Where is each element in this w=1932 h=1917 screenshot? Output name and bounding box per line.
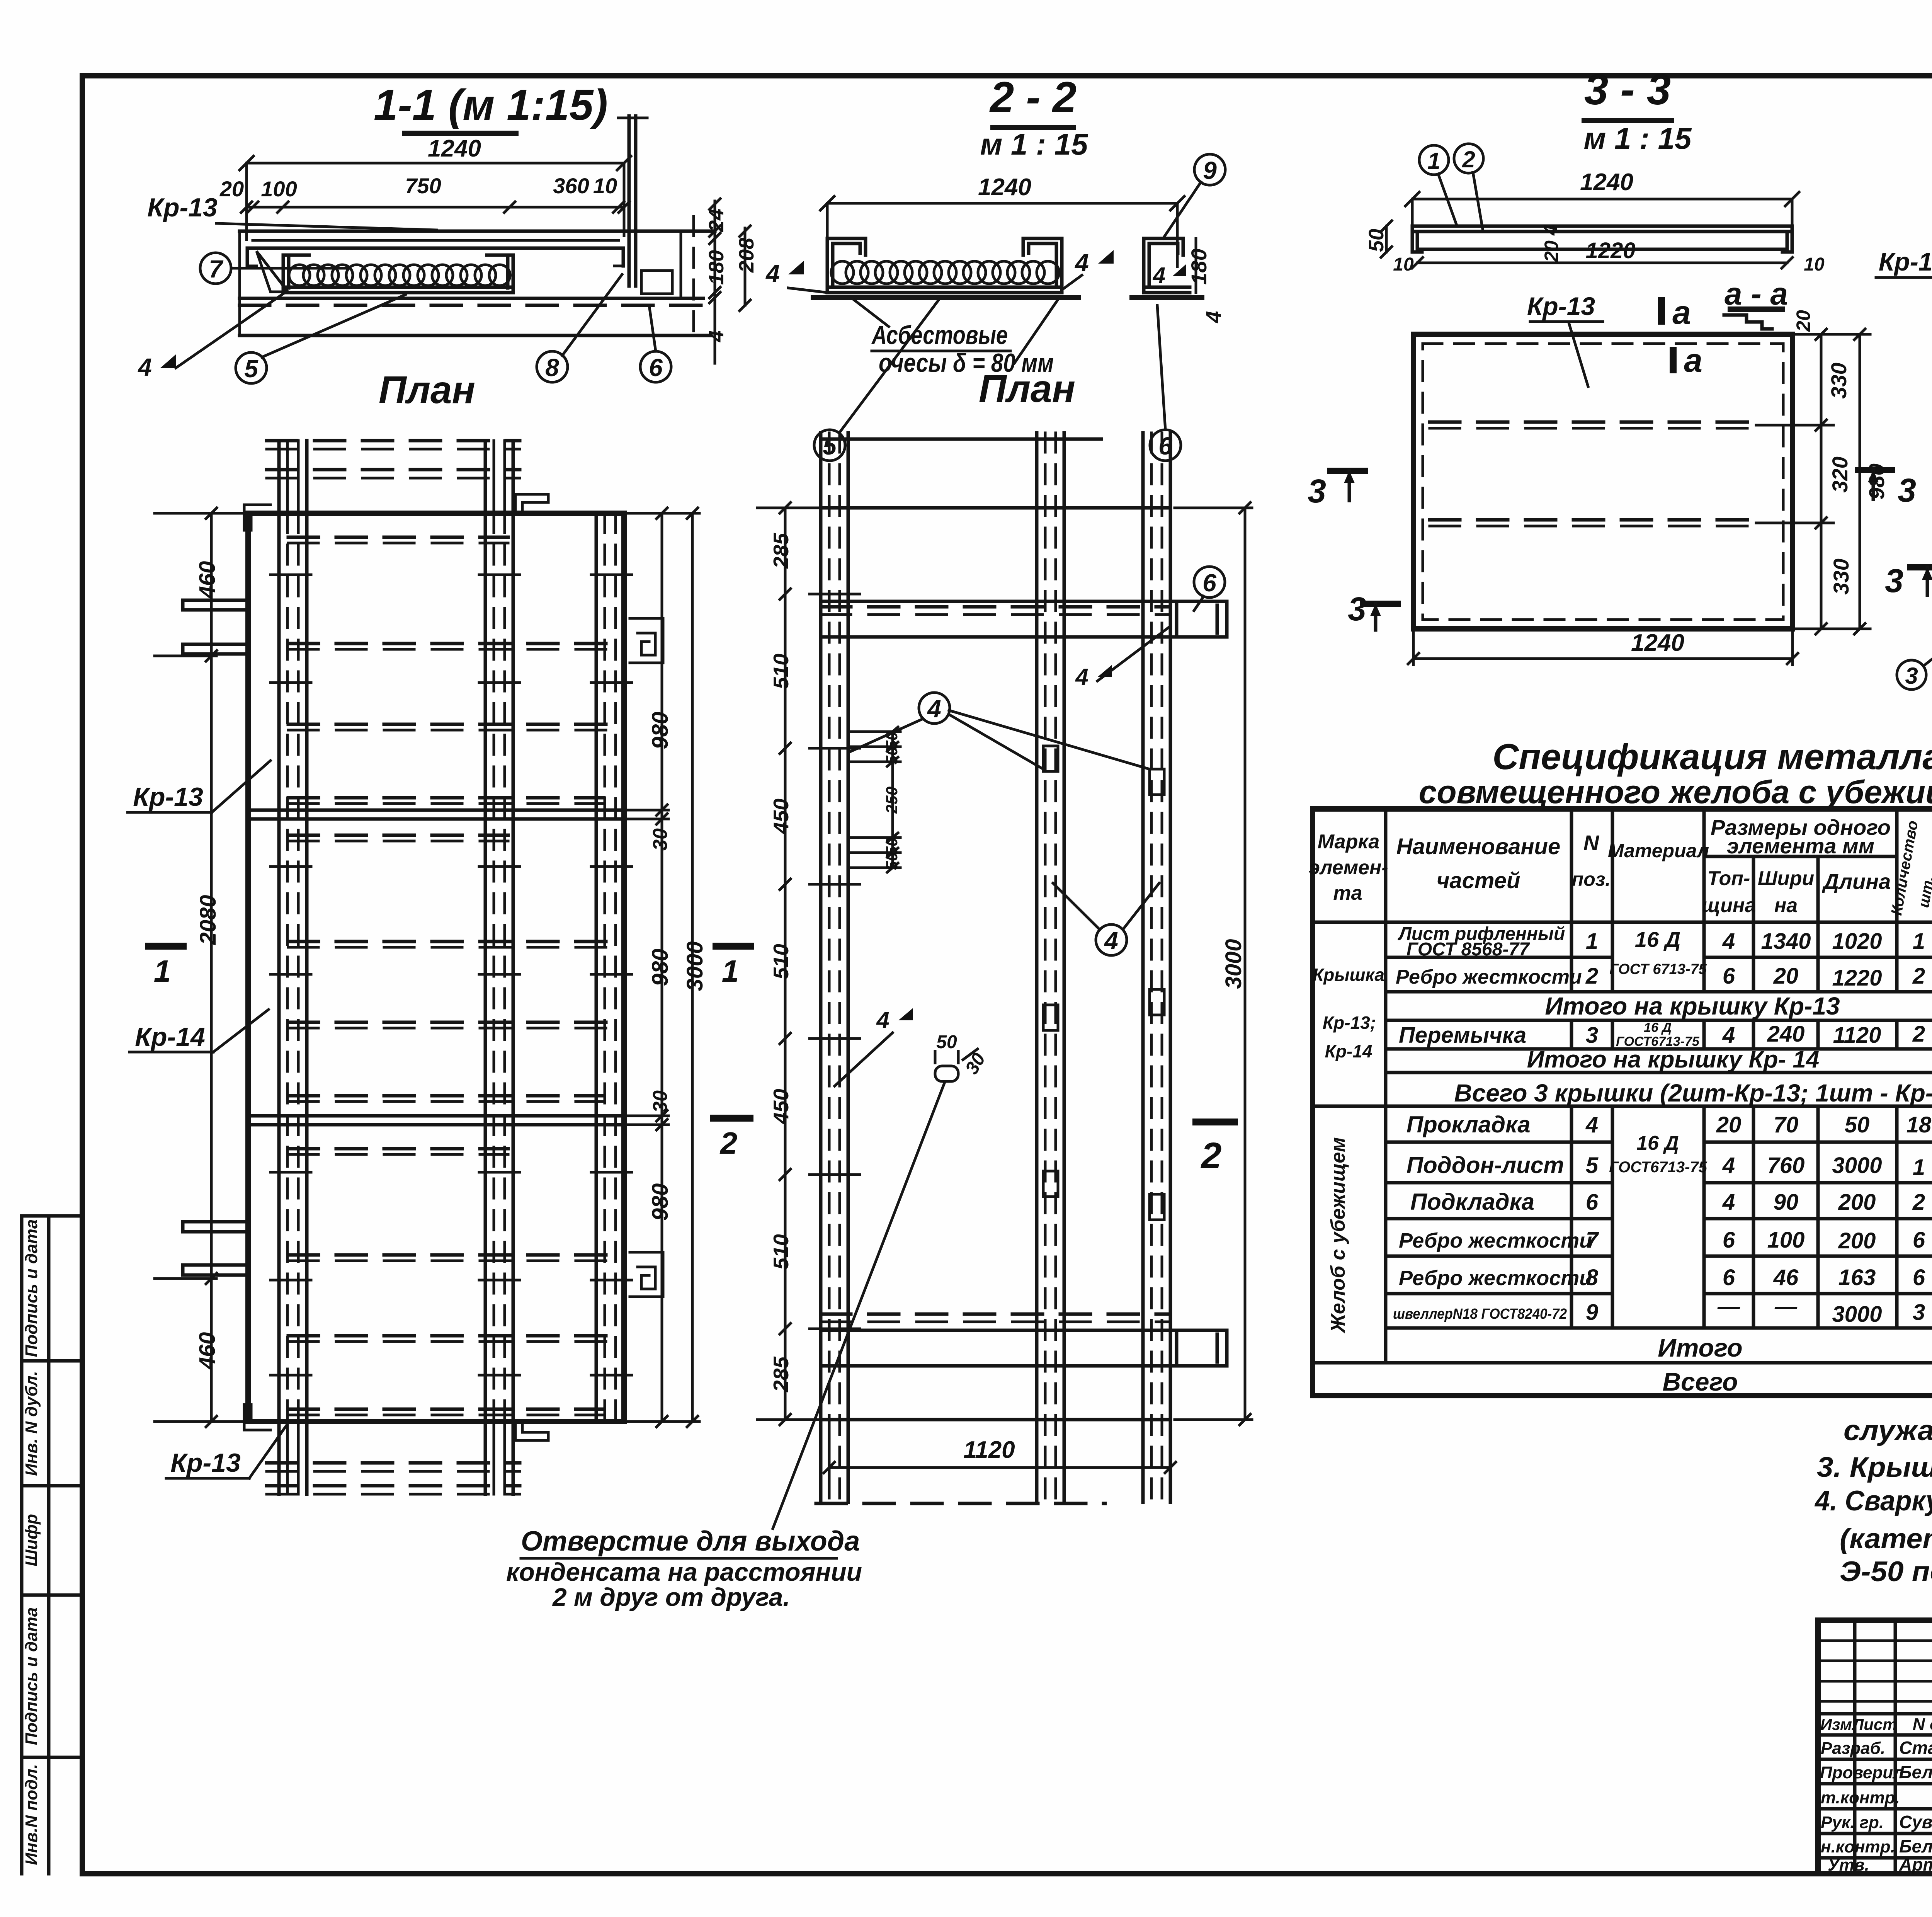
svg-text:6: 6 <box>1913 1227 1925 1253</box>
svg-text:План: План <box>379 368 475 412</box>
svg-text:2: 2 <box>1912 1190 1925 1215</box>
svg-text:4: 4 <box>1104 927 1118 955</box>
svg-text:163: 163 <box>1838 1265 1876 1290</box>
svg-text:20: 20 <box>1773 964 1799 989</box>
svg-text:4: 4 <box>1722 1153 1735 1178</box>
svg-text:330: 330 <box>1829 558 1853 594</box>
svg-text:Шифр: Шифр <box>22 1514 41 1566</box>
svg-text:240: 240 <box>1767 1021 1805 1047</box>
svg-text:2: 2 <box>1912 964 1925 989</box>
right dim 3000 (plan B) <box>1244 508 1247 1420</box>
svg-text:3000: 3000 <box>1221 939 1246 989</box>
svg-text:Кр-13: Кр-13 <box>170 1448 241 1478</box>
svg-text:208: 208 <box>735 238 758 273</box>
svg-text:Белова: Белова <box>1899 1836 1932 1856</box>
dim chain 50/50/250/50/50 <box>891 732 894 868</box>
svg-text:50: 50 <box>1845 1112 1870 1137</box>
section mark 1 right <box>713 943 754 950</box>
svg-text:8: 8 <box>1586 1265 1599 1290</box>
svg-text:Кр-13: Кр-13 <box>1527 292 1595 320</box>
svg-text:Перемычка: Перемычка <box>1399 1023 1526 1048</box>
svg-text:Кр-14: Кр-14 <box>1879 247 1932 276</box>
svg-text:20: 20 <box>1541 240 1562 262</box>
svg-text:50: 50 <box>936 1032 957 1052</box>
svg-text:4: 4 <box>1722 929 1735 954</box>
svg-text:Всего: Всего <box>1663 1367 1738 1396</box>
dim 1240 (2-2) <box>827 202 1177 205</box>
trough channel walls <box>283 255 513 293</box>
circled 3 lower-left <box>1897 660 1926 690</box>
svg-text:9: 9 <box>1586 1300 1598 1325</box>
svg-text:7: 7 <box>209 255 224 283</box>
svg-text:10: 10 <box>1393 254 1414 275</box>
svg-text:4: 4 <box>876 1007 889 1033</box>
svg-text:285: 285 <box>769 533 793 569</box>
svg-text:Шири: Шири <box>1758 867 1814 890</box>
svg-text:6: 6 <box>1723 1265 1735 1290</box>
svg-text:70: 70 <box>1774 1112 1799 1137</box>
side tabs left <box>183 600 248 610</box>
svg-text:Разраб.: Разраб. <box>1821 1739 1885 1758</box>
rails top cap line (plan B) <box>821 438 1101 441</box>
svg-text:Отверстие для выхода: Отверстие для выхода <box>521 1526 860 1557</box>
circled 8 <box>537 351 568 382</box>
svg-text:4: 4 <box>1075 664 1088 690</box>
svg-text:Белова: Белова <box>1899 1762 1932 1782</box>
plan view of trough with covers (plan A) <box>128 441 754 1494</box>
svg-text:980: 980 <box>648 949 673 986</box>
dim 1240 (1-1) <box>247 162 624 165</box>
svg-text:3: 3 <box>1308 473 1326 510</box>
svg-text:3000: 3000 <box>1832 1302 1882 1327</box>
svg-text:50: 50 <box>883 747 901 765</box>
svg-text:4: 4 <box>1540 225 1561 236</box>
pallet top/bottom edges <box>821 506 1170 510</box>
svg-text:Артамонов: Артамонов <box>1899 1854 1932 1874</box>
left dims 285/510/450... <box>784 508 787 1420</box>
table header lines <box>1704 855 1897 858</box>
svg-text:250: 250 <box>883 787 901 814</box>
svg-text:1: 1 <box>722 954 739 988</box>
svg-text:4: 4 <box>1722 1190 1735 1215</box>
Kp-13 cover plan <box>1413 334 1793 629</box>
left dim line 460/2080/460 <box>210 513 213 1422</box>
svg-text:Инв. N дубл.: Инв. N дубл. <box>22 1371 41 1476</box>
svg-text:510: 510 <box>769 944 793 979</box>
svg-text:450: 450 <box>769 798 793 834</box>
svg-text:320: 320 <box>1828 456 1852 492</box>
svg-text:50: 50 <box>883 852 901 870</box>
specification table <box>1309 736 1932 1396</box>
svg-text:46: 46 <box>1773 1265 1799 1290</box>
rails protruding above cover <box>277 441 281 513</box>
section 2-2 view <box>705 73 1226 461</box>
svg-text:Ребро жесткости: Ребро жесткости <box>1399 1267 1592 1290</box>
svg-text:ГОСТ 6713-75: ГОСТ 6713-75 <box>1609 961 1707 977</box>
svg-text:980: 980 <box>648 1183 673 1221</box>
circled 6 (2-2) <box>1150 430 1181 461</box>
svg-text:16 Д: 16 Д <box>1636 1132 1679 1154</box>
condensate hole <box>935 1066 958 1081</box>
svg-text:330: 330 <box>1827 363 1851 398</box>
svg-text:1: 1 <box>154 954 171 988</box>
svg-text:510: 510 <box>769 654 793 689</box>
title block (stamp) <box>1818 1620 1932 1879</box>
svg-text:т.контр.: т.контр. <box>1821 1788 1900 1807</box>
svg-text:Спецификация металла: Спецификация металла <box>1492 736 1932 777</box>
bottom dim 1120 <box>828 1420 831 1480</box>
circled 2 (3-3) <box>1454 144 1483 173</box>
svg-text:1240: 1240 <box>978 174 1031 201</box>
svg-text:3000: 3000 <box>682 941 707 991</box>
svg-text:та: та <box>1333 882 1362 904</box>
svg-text:ГОСТ 8568-77: ГОСТ 8568-77 <box>1406 939 1530 960</box>
svg-text:Длина: Длина <box>1822 869 1891 894</box>
svg-text:Инв.N подл.: Инв.N подл. <box>22 1764 41 1865</box>
svg-text:Подпись и дата: Подпись и дата <box>22 1219 41 1357</box>
svg-text:30: 30 <box>649 828 672 851</box>
dim 50 left <box>1385 226 1388 252</box>
svg-text:Ребро жесткости: Ребро жесткости <box>1396 966 1582 988</box>
svg-text:1120: 1120 <box>963 1437 1015 1463</box>
hidden edge dashed bands <box>288 536 508 539</box>
left frame strip cells <box>22 1216 82 1874</box>
svg-text:24: 24 <box>705 209 728 232</box>
right dim line 980/30 chain <box>661 513 663 1422</box>
svg-text:Ребро жесткости: Ребро жесткости <box>1399 1229 1592 1252</box>
cover joint lines <box>248 809 624 812</box>
svg-text:10: 10 <box>1804 254 1825 275</box>
svg-text:10: 10 <box>593 174 617 198</box>
svg-text:Суворов: Суворов <box>1899 1812 1932 1832</box>
section mark 1 left <box>145 943 187 950</box>
sig table rows <box>1818 1639 1932 1642</box>
svg-text:1: 1 <box>1586 929 1598 954</box>
svg-text:Рук. гр.: Рук. гр. <box>1821 1813 1884 1832</box>
svg-text:20: 20 <box>1716 1112 1742 1137</box>
svg-text:100: 100 <box>261 177 297 201</box>
svg-text:Итого на крышку Кр- 14: Итого на крышку Кр- 14 <box>1527 1046 1820 1073</box>
svg-text:План: План <box>979 367 1075 410</box>
svg-text:18: 18 <box>1906 1112 1932 1137</box>
svg-text:4: 4 <box>137 353 152 381</box>
svg-text:1020: 1020 <box>1832 929 1882 954</box>
svg-text:16 Д: 16 Д <box>1644 1020 1672 1035</box>
svg-text:3. Крышки желоба — съемные.: 3. Крышки желоба — съемные. <box>1817 1452 1932 1483</box>
svg-text:2 - 2: 2 - 2 <box>989 73 1077 121</box>
circled 6 (plan B) <box>1194 567 1225 598</box>
svg-text:200: 200 <box>1838 1228 1876 1253</box>
svg-text:180: 180 <box>705 250 728 285</box>
table row lines <box>1386 956 1612 959</box>
svg-text:Желоб с убежищем: Желоб с убежищем <box>1327 1137 1349 1333</box>
svg-text:16 Д: 16 Д <box>1635 927 1680 952</box>
svg-text:Подкладка: Подкладка <box>1410 1189 1534 1215</box>
channel N18 piece (pos9) <box>1144 238 1190 293</box>
dim 1240 (3-3 top) <box>1412 198 1792 201</box>
circled 9 <box>1194 154 1225 185</box>
svg-text:элемента мм: элемента мм <box>1727 834 1874 858</box>
svg-text:Кр-14: Кр-14 <box>1325 1041 1372 1061</box>
svg-text:Кр-13;: Кр-13; <box>1323 1013 1376 1033</box>
svg-text:элемен-: элемен- <box>1309 856 1388 879</box>
svg-text:щина: щина <box>1702 894 1756 917</box>
svg-text:Поддон-лист: Поддон-лист <box>1406 1152 1564 1178</box>
trough rails (plan A) <box>277 513 281 1422</box>
svg-text:N докум.: N докум. <box>1913 1715 1932 1734</box>
svg-text:3: 3 <box>1586 1023 1598 1048</box>
svg-text:4: 4 <box>1153 263 1165 288</box>
svg-text:460: 460 <box>195 561 220 599</box>
dim 180 / 4 (pos9) <box>1195 238 1197 293</box>
svg-text:Наименование: Наименование <box>1396 834 1560 859</box>
svg-text:1240: 1240 <box>428 135 481 162</box>
svg-text:5: 5 <box>244 355 259 383</box>
svg-text:Крышка: Крышка <box>1313 965 1384 985</box>
svg-text:20: 20 <box>1793 310 1814 332</box>
svg-text:1-1 (м 1:15): 1-1 (м 1:15) <box>374 81 608 129</box>
lugs right <box>821 600 1170 603</box>
section mark 2 (plan B right) <box>1192 1119 1238 1125</box>
section 3-3 view <box>1308 65 1932 665</box>
svg-text:Итого: Итого <box>1658 1333 1743 1362</box>
hatch wedge left (pos7) <box>257 251 288 292</box>
svg-text:н.контр.: н.контр. <box>1821 1837 1895 1856</box>
asbestos loops (1-1) <box>289 265 510 286</box>
section 1-1 view <box>137 81 718 412</box>
svg-text:2 м друг от друга.: 2 м друг от друга. <box>552 1583 790 1611</box>
svg-text:3 - 3: 3 - 3 <box>1584 65 1671 114</box>
svg-text:4: 4 <box>927 695 941 723</box>
svg-text:2: 2 <box>1585 964 1598 989</box>
base lines under trough <box>240 297 703 300</box>
svg-text:Станкевич: Станкевич <box>1899 1738 1932 1758</box>
svg-text:Изм: Изм <box>1820 1715 1852 1733</box>
svg-text:1240: 1240 <box>1631 630 1684 656</box>
svg-text:Кр-13: Кр-13 <box>147 193 218 222</box>
outer dim 3000 (plan A) <box>691 513 694 1422</box>
svg-text:3: 3 <box>1348 591 1366 628</box>
corner clips bottom <box>244 1405 270 1430</box>
pallet end dashed bands <box>821 605 1170 609</box>
svg-text:50: 50 <box>1365 229 1388 252</box>
cover outline <box>248 513 624 1422</box>
svg-text:конденсата на расстоянии: конденсата на расстоянии <box>506 1558 862 1586</box>
svg-text:a: a <box>1672 294 1691 331</box>
svg-text:3: 3 <box>1913 1300 1925 1325</box>
svg-text:5: 5 <box>1586 1153 1599 1178</box>
dim 1240 (Kp-13 bottom) <box>1412 629 1415 665</box>
svg-text:Кр-13: Кр-13 <box>133 782 203 812</box>
circled 1 (3-3) <box>1419 145 1449 175</box>
svg-text:Э-50 по ГОСТ 9467-75.: Э-50 по ГОСТ 9467-75. <box>1840 1556 1932 1587</box>
svg-text:Топ-: Топ- <box>1708 867 1750 890</box>
svg-text:Асбестовые: Асбестовые <box>871 320 1008 350</box>
svg-text:Прокладка: Прокладка <box>1406 1112 1531 1137</box>
svg-text:6: 6 <box>1723 964 1735 989</box>
svg-text:(катет шва h = 4 мм), для: (катет шва h = 4 мм), для северной СКЗ- … <box>1840 1523 1932 1554</box>
svg-text:—: — <box>1717 1294 1740 1319</box>
svg-text:760: 760 <box>1767 1153 1805 1178</box>
svg-text:4: 4 <box>1074 249 1089 277</box>
svg-text:2: 2 <box>1912 1021 1925 1047</box>
circled 6 (1-1) <box>640 351 671 382</box>
svg-text:6: 6 <box>1723 1227 1735 1253</box>
svg-text:6: 6 <box>1202 569 1216 597</box>
rails (plan B) <box>819 433 823 1502</box>
svg-text:200: 200 <box>1838 1190 1876 1215</box>
svg-text:510: 510 <box>769 1234 793 1270</box>
circled 7 <box>200 253 231 284</box>
svg-text:1: 1 <box>1913 929 1925 954</box>
svg-text:4: 4 <box>1722 1023 1735 1048</box>
svg-text:1220: 1220 <box>1832 965 1882 991</box>
svg-text:4. Сварку производить электр: 4. Сварку производить электродами Э-42 А… <box>1814 1485 1932 1517</box>
svg-text:Утв.: Утв. <box>1828 1856 1869 1874</box>
section3 cut marks left of Kp-13 <box>1327 468 1368 474</box>
svg-text:180: 180 <box>1187 249 1211 284</box>
svg-text:Лист: Лист <box>1851 1715 1897 1733</box>
svg-text:a: a <box>1684 342 1702 379</box>
svg-text:1: 1 <box>1427 148 1440 174</box>
svg-text:460: 460 <box>195 1332 220 1370</box>
svg-text:совмещенного желоба с убежищ: совмещенного желоба с убежищем <box>1419 774 1932 810</box>
svg-text:7: 7 <box>1586 1227 1599 1253</box>
shared dims between 1-1 and 2-2 <box>714 201 716 363</box>
svg-text:2080: 2080 <box>196 895 221 945</box>
svg-text:Марка: Марка <box>1318 831 1380 853</box>
svg-text:Подпись и дата: Подпись и дата <box>22 1607 41 1745</box>
svg-text:N: N <box>1583 831 1600 855</box>
svg-text:1: 1 <box>1913 1155 1925 1180</box>
svg-text:2: 2 <box>1462 146 1475 172</box>
section3 cut marks right (between Kp13/Kp14) <box>1855 467 1895 473</box>
flat cover section <box>1412 226 1792 252</box>
svg-text:3: 3 <box>1885 562 1903 599</box>
rail tick marks at dim boundaries <box>810 593 860 596</box>
svg-text:6: 6 <box>1586 1190 1599 1215</box>
corner clips top <box>244 505 270 530</box>
svg-text:6: 6 <box>649 354 663 381</box>
svg-text:ГОСТ6713-75: ГОСТ6713-75 <box>1609 1159 1707 1176</box>
clip symbols right <box>630 618 663 663</box>
table outer frame <box>1313 809 1932 1396</box>
plan view of pallet (plan B) <box>506 433 1252 1611</box>
svg-text:360: 360 <box>553 174 589 198</box>
svg-text:Материал: Материал <box>1608 840 1709 861</box>
svg-text:285: 285 <box>769 1356 793 1393</box>
svg-text:Проверил: Проверил <box>1820 1763 1903 1782</box>
svg-text:450: 450 <box>769 1089 793 1125</box>
Kp-13 right dims 330/320/330 <box>1793 333 1870 336</box>
cut marks a <box>1658 297 1665 325</box>
svg-text:8: 8 <box>545 354 559 381</box>
table column lines <box>1384 809 1388 1363</box>
circled 5 (2-2) <box>814 430 845 461</box>
cover plate <box>247 248 623 266</box>
svg-text:м 1 : 15: м 1 : 15 <box>1584 121 1692 155</box>
section mark 2 right <box>710 1115 753 1122</box>
circled 5 (1-1) <box>236 352 267 383</box>
svg-text:швеллерN18 ГОСТ8240-72: швеллерN18 ГОСТ8240-72 <box>1393 1306 1567 1322</box>
pallet sheet (2-2) <box>813 295 1078 300</box>
svg-text:1120: 1120 <box>1833 1023 1881 1048</box>
svg-text:1240: 1240 <box>1580 169 1633 196</box>
svg-text:1220: 1220 <box>1585 238 1635 263</box>
svg-text:4: 4 <box>1585 1112 1598 1137</box>
svg-text:100: 100 <box>1767 1227 1805 1253</box>
svg-text:4: 4 <box>765 260 780 288</box>
svg-text:750: 750 <box>405 174 441 198</box>
svg-text:90: 90 <box>1774 1190 1799 1215</box>
svg-text:2: 2 <box>1201 1135 1222 1176</box>
rail tie marks <box>270 574 311 576</box>
Kp-14 cover plan <box>1876 247 1932 765</box>
svg-text:Всего 3 крышки (2шт-Кр-13; 1шт: Всего 3 крышки (2шт-Кр-13; 1шт - Кр-14) <box>1454 1079 1932 1107</box>
deck lines <box>240 230 715 233</box>
svg-text:а - а: а - а <box>1725 276 1788 312</box>
svg-text:1340: 1340 <box>1761 929 1811 954</box>
svg-text:на: на <box>1774 894 1798 917</box>
svg-text:Итого на крышку Кр-13: Итого на крышку Кр-13 <box>1545 992 1840 1020</box>
dim chain 20 100 750 360 10 <box>247 206 624 209</box>
svg-text:30: 30 <box>649 1090 672 1113</box>
svg-text:4: 4 <box>705 330 728 342</box>
notes block (Примечания) <box>1814 997 1932 1587</box>
svg-text:Кр-14: Кр-14 <box>135 1022 205 1052</box>
svg-text:3000: 3000 <box>1832 1153 1882 1178</box>
svg-text:6: 6 <box>1913 1265 1925 1290</box>
sig table columns <box>1853 1620 1857 1874</box>
svg-text:980: 980 <box>648 712 673 749</box>
right post and deck edge <box>628 116 631 286</box>
svg-text:3: 3 <box>1905 663 1918 689</box>
circled 4 upper + leaders <box>919 693 950 724</box>
svg-text:служащие амортизирующим мате: служащие амортизирующим материалом. <box>1844 1415 1932 1446</box>
svg-text:4: 4 <box>1201 311 1226 323</box>
rails protruding below cover <box>277 1422 281 1494</box>
svg-text:20: 20 <box>219 177 244 201</box>
svg-text:поз.: поз. <box>1572 868 1611 890</box>
svg-text:м 1 : 15: м 1 : 15 <box>980 127 1088 161</box>
circled 4 lower + leaders <box>1096 924 1127 955</box>
mid-rail ties <box>1043 746 1058 771</box>
channel with asbestos (2-2) <box>827 238 1062 293</box>
svg-text:9: 9 <box>1203 157 1217 184</box>
svg-text:частей: частей <box>1437 868 1520 893</box>
svg-text:—: — <box>1774 1294 1798 1319</box>
svg-text:3: 3 <box>1898 472 1916 509</box>
dim 1220 <box>1417 262 1787 264</box>
svg-text:2: 2 <box>719 1126 738 1160</box>
